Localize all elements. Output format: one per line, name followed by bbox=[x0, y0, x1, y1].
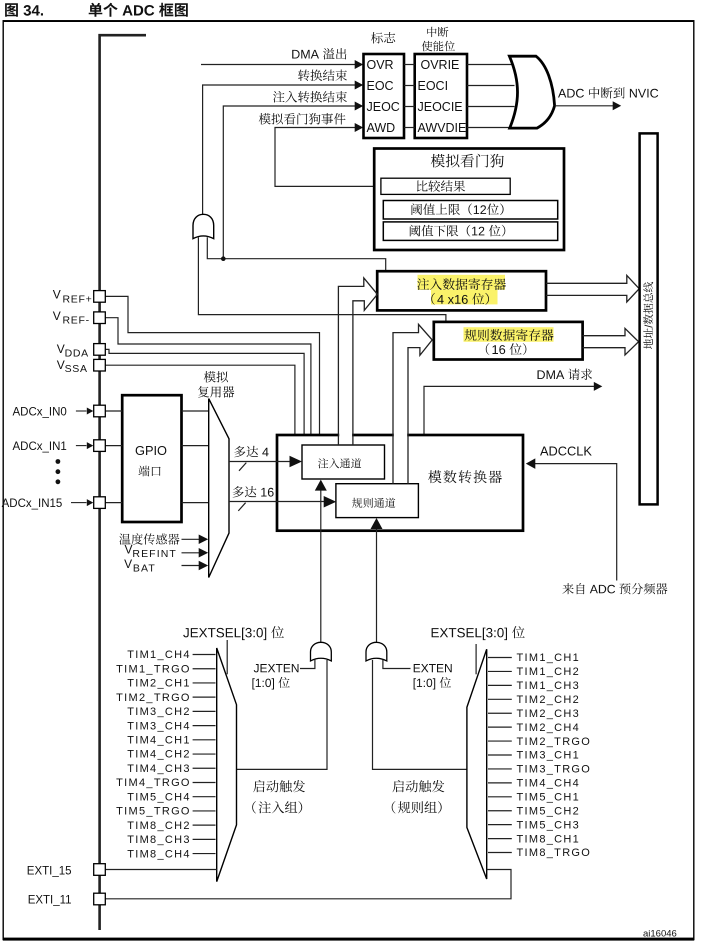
svg-text:TIM2_CH3: TIM2_CH3 bbox=[517, 708, 581, 720]
svg-text:EOCI: EOCI bbox=[418, 79, 449, 93]
svg-text:REF-: REF- bbox=[63, 315, 90, 327]
svg-text:TIM1_CH3: TIM1_CH3 bbox=[517, 680, 581, 692]
ellipsis dots bbox=[56, 459, 61, 464]
regular data register box bbox=[434, 322, 583, 360]
svg-text:TIM2_CH2: TIM2_CH2 bbox=[517, 694, 581, 706]
ADC converter box bbox=[277, 435, 523, 531]
border gaps for register pipes bbox=[339, 433, 352, 437]
svg-text:TIM2_CH4: TIM2_CH4 bbox=[517, 722, 581, 734]
junction dot JEOC bbox=[221, 256, 226, 261]
svg-text:TIM5_CH3: TIM5_CH3 bbox=[517, 819, 581, 831]
chip boundary rail bbox=[100, 35, 146, 930]
or-gate JEXTEN bbox=[311, 642, 332, 661]
svg-text:TIM8_CH2: TIM8_CH2 bbox=[127, 820, 191, 832]
label flags bbox=[371, 32, 395, 44]
svg-text:BAT: BAT bbox=[133, 563, 156, 575]
svg-text:TIM3_TRGO: TIM3_TRGO bbox=[517, 764, 592, 776]
svg-text:REFINT: REFINT bbox=[132, 548, 177, 560]
address data bus bbox=[640, 133, 658, 504]
svg-text:V: V bbox=[53, 288, 61, 302]
wire up to 16 regular bbox=[229, 501, 325, 503]
right trigger mux trapezoid bbox=[467, 649, 487, 879]
wire EXTEN label to gate bbox=[383, 660, 411, 669]
svg-text:ADCx_IN1: ADCx_IN1 bbox=[13, 441, 67, 453]
status flag box OVR EOC JEOC AWD bbox=[364, 54, 405, 138]
label end of injected conversion bbox=[273, 91, 347, 103]
svg-text:DDA: DDA bbox=[65, 347, 89, 359]
wire AWD analog watchdog event bbox=[275, 128, 382, 187]
chip pads on rail bbox=[94, 291, 106, 303]
svg-text:JEOC: JEOC bbox=[367, 100, 400, 114]
wires GPIO to analog mux bbox=[182, 410, 209, 412]
label JEXTEN bits bbox=[254, 664, 299, 672]
svg-text:V: V bbox=[124, 557, 132, 571]
svg-text:TIM2_TRGO: TIM2_TRGO bbox=[116, 692, 191, 704]
svg-text:AWVDIE: AWVDIE bbox=[418, 121, 467, 135]
svg-text:TIM5_CH1: TIM5_CH1 bbox=[517, 792, 581, 804]
label analog mux bbox=[204, 371, 228, 383]
label EXTEN bits bbox=[414, 664, 452, 672]
or-gate small EOC bbox=[193, 214, 214, 238]
svg-text:OVR: OVR bbox=[367, 58, 394, 72]
label interrupt enable bits bbox=[427, 27, 448, 37]
svg-text:TIM5_CH2: TIM5_CH2 bbox=[517, 805, 581, 817]
svg-text:ai16046: ai16046 bbox=[643, 928, 677, 939]
wire gate output to NVIC bbox=[555, 105, 613, 107]
wire injected trigger bbox=[320, 490, 322, 644]
wires pads to GPIO bbox=[104, 410, 122, 412]
label EXTSEL bits bbox=[432, 626, 525, 640]
left trigger mux trapezoid bbox=[217, 648, 237, 882]
pipe injected channels to injected data register bbox=[338, 278, 377, 445]
wire VREF- bbox=[104, 318, 311, 435]
GPIO port box bbox=[122, 395, 181, 522]
bus arrow from regular data register bbox=[583, 328, 639, 355]
svg-text:TIM1_CH2: TIM1_CH2 bbox=[517, 666, 581, 678]
svg-text:TIM1_CH4: TIM1_CH4 bbox=[127, 649, 191, 661]
svg-text:TIM4_CH1: TIM4_CH1 bbox=[127, 735, 191, 747]
svg-text:AWD: AWD bbox=[367, 121, 396, 135]
svg-text:TIM1_TRGO: TIM1_TRGO bbox=[116, 663, 191, 675]
wire VDDA bbox=[104, 349, 304, 435]
svg-text:ADCx_IN15: ADCx_IN15 bbox=[2, 498, 63, 510]
svg-text:EOC: EOC bbox=[367, 79, 394, 93]
wire EXTI_11 to right mux bbox=[104, 870, 511, 899]
wire ADCCLK bbox=[534, 464, 617, 581]
svg-text:TIM8_CH3: TIM8_CH3 bbox=[127, 834, 191, 846]
higher threshold box bbox=[383, 201, 557, 220]
figure title text bbox=[5, 3, 43, 17]
or-gate EXTEN bbox=[366, 642, 387, 661]
svg-text:GPIO: GPIO bbox=[135, 443, 167, 458]
or-gate ADC interrupt bbox=[509, 56, 554, 128]
injected channels box bbox=[302, 445, 385, 479]
wire up to 4 injected bbox=[229, 461, 291, 463]
wire EXTI_15 to left mux bbox=[104, 869, 216, 871]
label JEXTSEL bits bbox=[183, 626, 284, 640]
svg-text:TIM3_CH2: TIM3_CH2 bbox=[127, 706, 191, 718]
svg-text:TIM8_TRGO: TIM8_TRGO bbox=[517, 847, 592, 859]
or-gate EOC combine bbox=[198, 237, 446, 321]
compare result box bbox=[381, 178, 510, 194]
wire JEXTEN label to gate bbox=[300, 660, 315, 669]
svg-text:TIM1_CH1: TIM1_CH1 bbox=[517, 652, 581, 664]
label temperature sensor bbox=[119, 533, 179, 544]
right mux TIM trigger inputs bbox=[488, 657, 512, 659]
wire DMA request bbox=[424, 386, 594, 435]
svg-text:JEOCIE: JEOCIE bbox=[418, 100, 463, 114]
wire right mux to EXTEN gate bbox=[373, 660, 467, 769]
analog mux trapezoid bbox=[209, 399, 229, 578]
svg-text:TIM8_CH4: TIM8_CH4 bbox=[127, 848, 191, 860]
svg-text:TIM4_CH4: TIM4_CH4 bbox=[517, 778, 581, 790]
label start trigger injected group bbox=[253, 780, 305, 792]
label DMA overflow bbox=[292, 48, 346, 60]
label ADC interrupt to NVIC bbox=[558, 87, 658, 99]
wires flag box to enable box bbox=[404, 64, 415, 66]
svg-text:ADCCLK: ADCCLK bbox=[540, 443, 592, 458]
lower threshold box bbox=[383, 222, 557, 241]
label end of conversion bbox=[298, 70, 347, 82]
svg-text:TIM5_TRGO: TIM5_TRGO bbox=[116, 806, 191, 818]
wire EOC end of conversion bbox=[203, 85, 356, 214]
svg-text:TIM3_CH4: TIM3_CH4 bbox=[127, 720, 191, 732]
svg-text:SSA: SSA bbox=[65, 363, 88, 375]
label start trigger regular group bbox=[393, 780, 445, 792]
label from ADC prescaler bbox=[562, 583, 667, 594]
wire regular trigger bbox=[376, 528, 378, 643]
svg-text:TIM4_CH3: TIM4_CH3 bbox=[127, 763, 191, 775]
svg-text:TIM5_CH4: TIM5_CH4 bbox=[127, 791, 191, 803]
svg-text:V: V bbox=[53, 309, 61, 323]
wire VREF+ bbox=[104, 296, 319, 435]
pipe regular channels to regular data register bbox=[393, 324, 432, 483]
wires enable box to interrupt OR gate bbox=[467, 64, 512, 66]
svg-text:ADCx_IN0: ADCx_IN0 bbox=[13, 406, 67, 418]
svg-text:EXTI_11: EXTI_11 bbox=[28, 895, 72, 907]
interrupt enable box OVRIE EOCI JEOCIE AWVDIE bbox=[415, 54, 467, 138]
svg-text:V: V bbox=[125, 543, 133, 557]
bus arrow from injected data register bbox=[546, 275, 639, 302]
svg-text:TIM8_CH1: TIM8_CH1 bbox=[517, 833, 581, 845]
analog watchdog box bbox=[374, 149, 564, 251]
label analog watchdog event bbox=[259, 113, 346, 125]
svg-text:EXTI_15: EXTI_15 bbox=[27, 865, 72, 877]
svg-text:REF+: REF+ bbox=[63, 293, 93, 305]
left mux TIM trigger inputs bbox=[193, 654, 216, 656]
wire JEOC end of injected conversion bbox=[223, 106, 356, 259]
svg-text:OVRIE: OVRIE bbox=[421, 58, 460, 72]
svg-text:TIM2_TRGO: TIM2_TRGO bbox=[517, 736, 592, 748]
svg-text:TIM4_CH2: TIM4_CH2 bbox=[127, 749, 191, 761]
wire VSSA bbox=[104, 365, 295, 435]
svg-text:TIM2_CH1: TIM2_CH1 bbox=[127, 678, 191, 690]
injected data register box bbox=[377, 271, 546, 310]
wire JEOC from injected register bbox=[207, 237, 385, 271]
svg-text:TIM4_TRGO: TIM4_TRGO bbox=[116, 777, 191, 789]
wire left mux to JEXTEN gate bbox=[237, 660, 328, 769]
svg-text:TIM3_CH1: TIM3_CH1 bbox=[517, 750, 581, 762]
regular channels box bbox=[336, 484, 419, 518]
wire DMA overflow OVR bbox=[201, 64, 356, 66]
